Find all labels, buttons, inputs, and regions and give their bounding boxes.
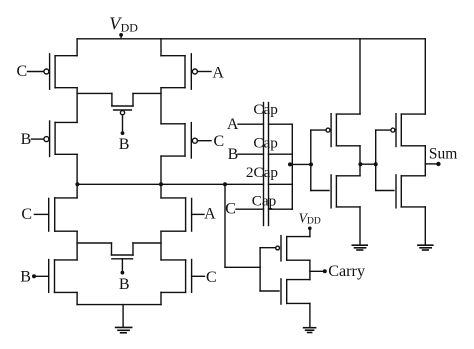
transistor NMOS A (upper-right) [161, 198, 216, 231]
wire: Cap4 right [269, 208, 293, 210]
wire: Cap3 right [269, 183, 293, 185]
node: inverter 1 output dot [358, 162, 362, 166]
wire: carry VDD stub [309, 229, 311, 237]
wire: left branch vertical (C drain to B source) [76, 88, 78, 123]
node: carry VDD dot [308, 227, 312, 231]
wire: left vertical (C drain to B source, NMOS) [76, 231, 78, 260]
wire: carry tap horizontal [225, 266, 260, 268]
wire: rail right drop to inverter 2 [424, 39, 426, 114]
transistor PMOS C (row2-right) [161, 123, 224, 158]
transistor NMOS inverter 2 [376, 175, 426, 208]
transistor NMOS carry [260, 279, 310, 304]
wire: node2 right segment [133, 242, 161, 244]
svg-text:B: B [21, 131, 32, 148]
transistor NMOS C (lower-right) [161, 260, 217, 293]
node: Carry terminal dot [323, 269, 327, 273]
transistor PMOS inverter 2 [376, 114, 426, 147]
svg-text:DD: DD [121, 21, 139, 35]
wire: rail left drop [76, 39, 78, 56]
wire: right vertical through output node [160, 156, 162, 198]
transistor NMOS inverter 1 [311, 175, 360, 208]
transistor PMOS C (top-left) [16, 54, 77, 89]
power VDD (carry) label [299, 210, 321, 226]
wire: capacitor summing rail [291, 124, 293, 209]
node: junction right [159, 182, 163, 186]
inverter 2 gate riser [375, 130, 377, 190]
wire: left vertical to ground line [76, 292, 78, 304]
svg-text:Sum: Sum [429, 146, 457, 163]
wire: ground line [77, 304, 161, 306]
svg-text:B: B [119, 136, 130, 153]
wire: output node line to capacitor 2Cap [77, 183, 263, 185]
transistor NMOS B (lower-left) [20, 260, 77, 293]
svg-text:B: B [119, 276, 130, 293]
svg-text:C: C [16, 63, 27, 80]
wire: right vertical to ground line [160, 292, 162, 304]
node: junction carry tap [223, 182, 227, 186]
wire: B to Cap2 [238, 153, 264, 155]
wire: inverter 1 output to inverter 2 input [360, 163, 376, 165]
wire: C to Cap4 [236, 208, 264, 210]
transistor PMOS A (top-right) [161, 54, 224, 89]
wire: node2 left segment [77, 242, 111, 244]
power VDD (main) label [109, 14, 138, 35]
svg-text:Carry: Carry [328, 262, 366, 280]
svg-text:Cap: Cap [252, 192, 276, 209]
svg-text:A: A [212, 64, 224, 81]
transistor NMOS B (bridge, bottom) [112, 243, 134, 293]
ground (main gate) [116, 305, 132, 333]
svg-text:Cap: Cap [253, 101, 277, 118]
node: summing node dot [288, 162, 292, 166]
svg-text:A: A [204, 206, 216, 223]
wire: inverter 2 to ground [424, 207, 426, 245]
svg-text:A: A [227, 116, 239, 133]
wire: right vertical (A drain to C source, NMOS) [160, 231, 162, 260]
svg-text:C: C [206, 269, 217, 286]
capacitor plates (left) [263, 103, 265, 226]
transistor PMOS B (row2-left) [21, 121, 78, 156]
svg-text:C: C [21, 206, 32, 223]
svg-text:C: C [213, 133, 224, 150]
wire: Cap2 right [269, 153, 293, 155]
svg-text:B: B [20, 269, 31, 286]
wire: inverter 1 output vertical [359, 146, 361, 176]
wire: carry to ground [309, 303, 311, 327]
node: inverter 1 input dot [309, 162, 313, 166]
transistor PMOS inverter 1 [311, 114, 360, 147]
wire: summing node to inverter 1 input [289, 163, 311, 165]
wire: inverter 2 output vertical [424, 146, 426, 176]
capacitor plates (right) [268, 103, 270, 226]
node: inverter 2 input dot [374, 162, 378, 166]
inverter 1 gate riser [310, 130, 312, 190]
transistor PMOS B (bridge, top) [112, 93, 133, 152]
wire: VDD rail [77, 38, 425, 40]
node: VDD tap dot [119, 33, 123, 37]
svg-text:B: B [228, 146, 239, 163]
wire: Cap1 right [269, 123, 293, 125]
wire: right branch vertical (A drain to C source) [160, 88, 162, 124]
wire: left vertical through output node [76, 154, 78, 198]
ground (inverter 2) [418, 245, 433, 250]
transistor PMOS carry [260, 236, 310, 261]
wire: rail drop to A PMOS [160, 39, 162, 56]
wire: A to Cap1 [238, 123, 264, 125]
carry inverter gate riser [259, 248, 261, 291]
node: Sum terminal dot [436, 162, 440, 166]
wire: carry tap vertical [224, 184, 226, 267]
ground (inverter 1) [352, 245, 367, 250]
wire: VDD drop to inverter 1 [359, 39, 361, 114]
wire: inverter 1 to ground [359, 207, 361, 245]
wire: node1 left segment [77, 92, 112, 94]
transistor NMOS C (upper-left) [21, 198, 77, 231]
wire: Carry output [310, 270, 325, 272]
wire: VDD tap stub [120, 35, 122, 39]
wire: Sum output [425, 163, 438, 165]
node: junction left [75, 182, 79, 186]
svg-text:Cap: Cap [253, 135, 277, 152]
svg-text:2Cap: 2Cap [246, 164, 278, 181]
svg-text:DD: DD [307, 217, 321, 227]
ground (carry) [304, 328, 316, 333]
svg-text:C: C [225, 200, 236, 217]
wire: carry output vertical [309, 260, 311, 279]
wire: node1 right segment [133, 92, 161, 94]
